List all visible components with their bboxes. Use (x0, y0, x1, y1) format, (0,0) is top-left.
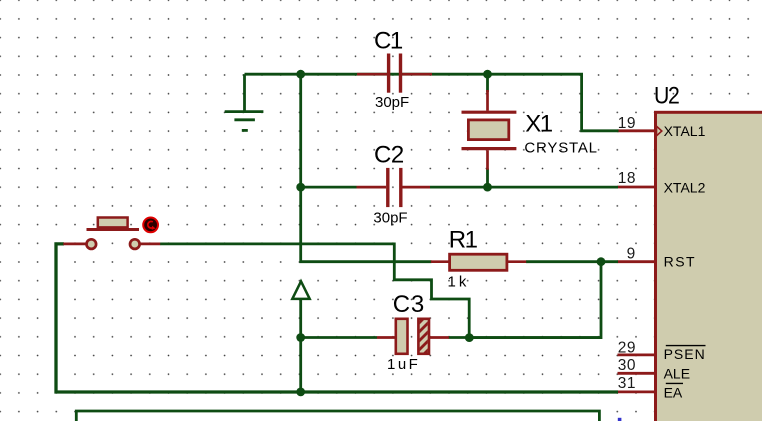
svg-text:ALE: ALE (664, 366, 690, 382)
svg-text:U2: U2 (654, 83, 680, 110)
svg-text:EA: EA (664, 385, 683, 401)
svg-text:30pF: 30pF (375, 94, 409, 111)
svg-text:1uF: 1uF (387, 356, 420, 373)
svg-text:30: 30 (618, 357, 636, 374)
svg-text:9: 9 (627, 246, 636, 263)
svg-text:R1: R1 (449, 226, 478, 253)
svg-text:19: 19 (618, 115, 636, 132)
svg-text:X1: X1 (525, 110, 553, 137)
svg-text:XTAL2: XTAL2 (664, 180, 706, 196)
svg-text:CRYSTAL: CRYSTAL (524, 140, 597, 157)
svg-text:29: 29 (618, 339, 636, 356)
svg-text:RST: RST (664, 254, 697, 270)
svg-text:30pF: 30pF (373, 209, 407, 226)
svg-text:XTAL1: XTAL1 (664, 123, 706, 139)
svg-text:C3: C3 (393, 291, 425, 318)
svg-text:1k: 1k (448, 274, 470, 291)
svg-text:PSEN: PSEN (664, 346, 706, 362)
svg-text:C2: C2 (374, 141, 404, 168)
svg-text:18: 18 (618, 170, 636, 187)
svg-text:31: 31 (618, 375, 636, 392)
svg-text:C1: C1 (374, 28, 403, 55)
